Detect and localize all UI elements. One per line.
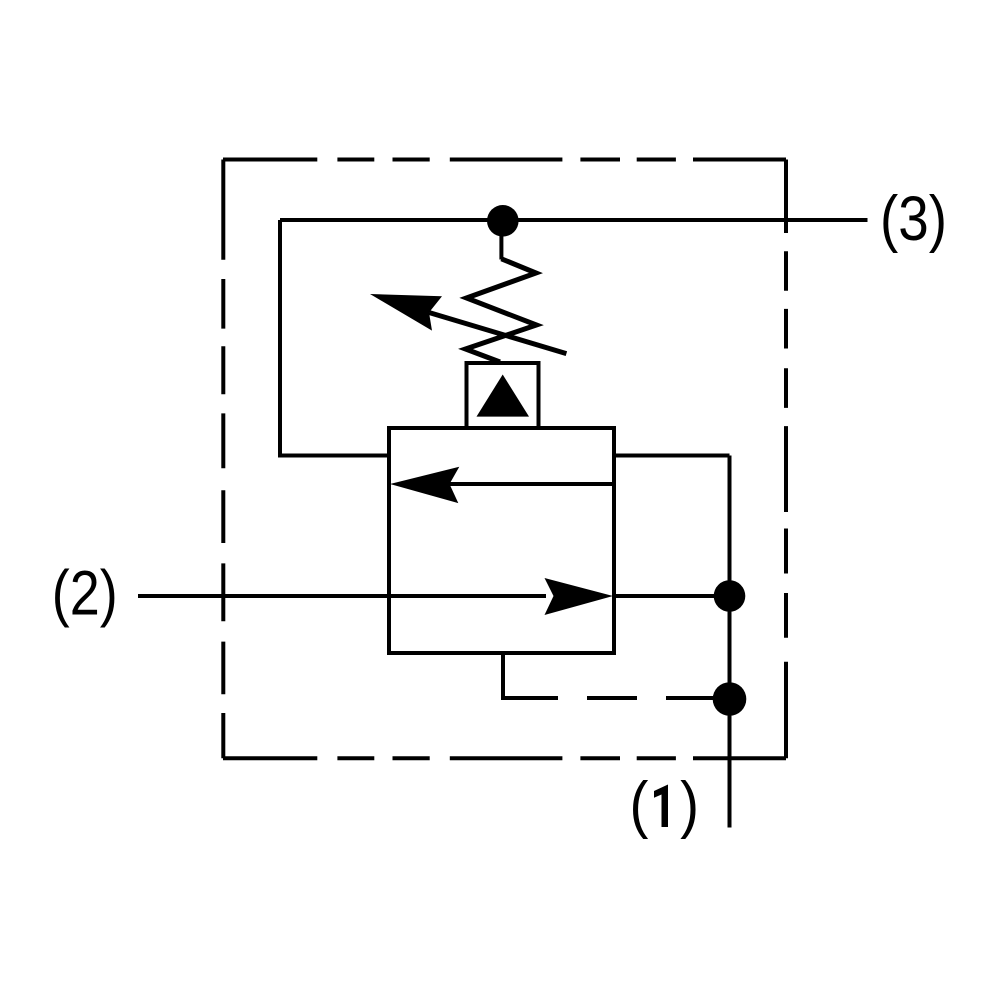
valve envelope dashed border: top edge	[223, 158, 786, 162]
wire: drain from body bottom (solid elbow)	[503, 653, 558, 698]
adjustment arrowhead	[370, 294, 442, 331]
pilot cap triangle	[477, 375, 530, 417]
node: drain junction	[713, 682, 747, 716]
spring zigzag	[466, 259, 537, 362]
node: spring/port-3 junction	[487, 205, 519, 237]
valve envelope dashed border: left edge	[221, 160, 225, 759]
wire: upper right link	[614, 454, 730, 458]
svg-text:(3): (3)	[880, 184, 947, 254]
wire: drain dashed segments	[587, 696, 714, 700]
label (1) digit one glyph	[654, 785, 668, 828]
node: main line junction	[714, 580, 746, 612]
wire: left pilot line	[280, 220, 387, 456]
spring stem	[499, 228, 503, 260]
upper chamber arrowhead (left)	[390, 467, 459, 503]
wire: right riser to port (1)	[728, 456, 732, 828]
valve envelope dashed border: right edge	[784, 160, 788, 759]
main flow arrowhead (right)	[545, 578, 614, 615]
valve body	[389, 428, 614, 653]
pilot cap box	[467, 363, 539, 428]
wire: port (3) horizontal line	[280, 218, 868, 222]
main flow line from port (2)	[138, 594, 546, 598]
svg-text:(2): (2)	[52, 559, 118, 629]
adjustment arrow shaft	[429, 313, 566, 354]
valve envelope dashed border: bottom edge	[223, 756, 786, 760]
upper chamber wire	[450, 482, 615, 486]
wire: body to node junction	[614, 594, 730, 598]
